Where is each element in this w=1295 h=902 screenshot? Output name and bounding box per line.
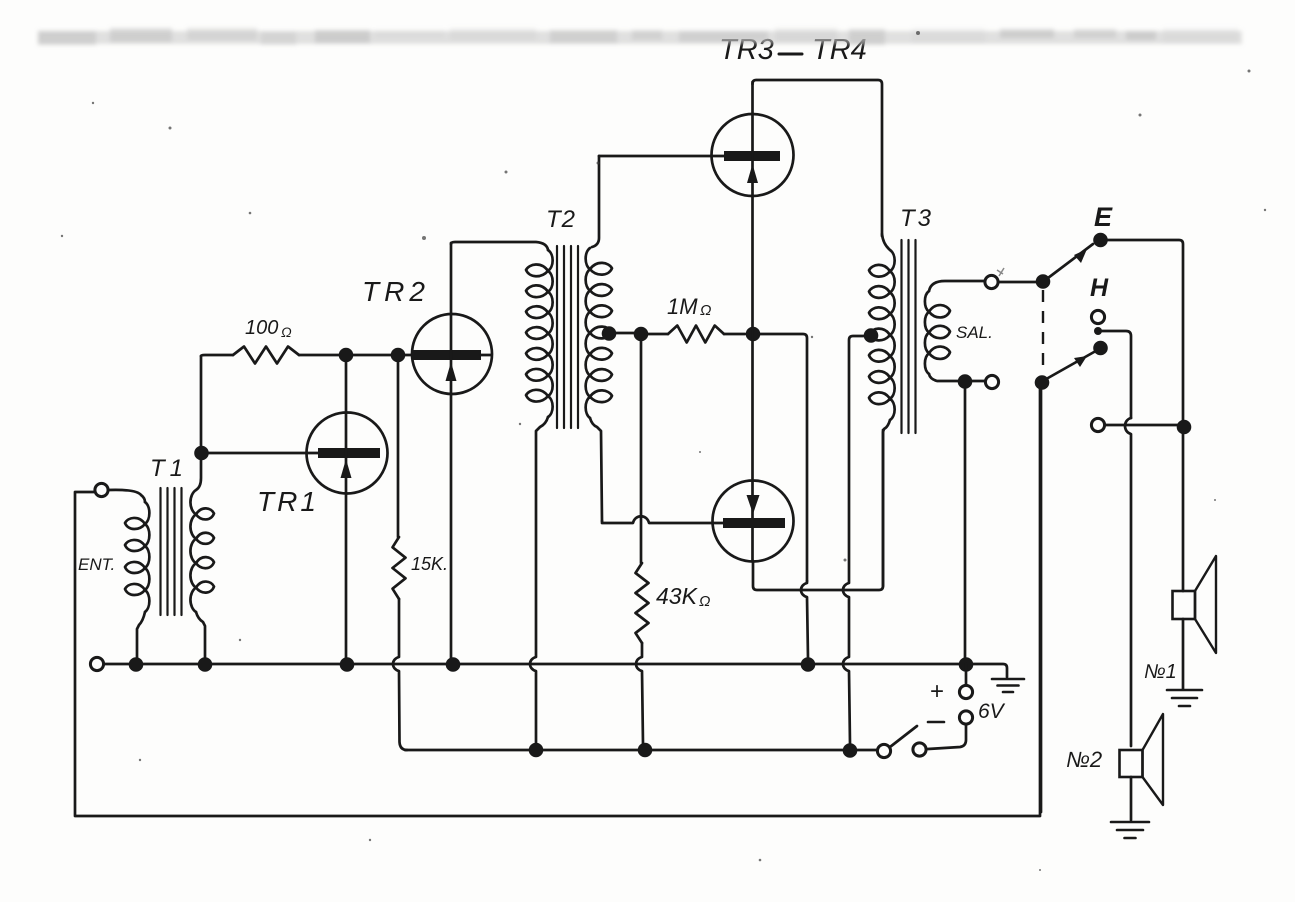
junction H small [1094,327,1102,335]
wire TR1 vertical (collector-emitter) [345,361,348,658]
transistor TR2 base bar [412,350,481,360]
terminal SAL top [985,275,998,288]
wire 15k upper lead [397,361,400,537]
wire 43k lower lead to bus2 [636,643,647,750]
wire 100ohm right lead to TR2 base [299,354,412,357]
speaker No2 cone [1143,714,1164,805]
terminal input top [95,483,108,496]
wire battery negative bus [405,749,877,752]
transformer T2 primary winding [526,250,553,417]
wire speaker1 to ground [1182,619,1185,689]
wire T1 secondary bottom lead [196,612,205,658]
wire speaker1 feed [1182,433,1185,591]
ground speaker2 [1111,822,1149,838]
transistor TR4 emitter arrow [747,495,760,514]
svg-text:Ω: Ω [699,593,710,610]
wire T2 secondary bottom lead [590,418,602,521]
wire T2 center tap [610,332,641,335]
wire TR4 bottom to T3 primary bottom [753,430,883,590]
resistor 43k [636,563,649,643]
wire right drop over y590 to bus [801,581,808,658]
ground speaker1 [1167,690,1202,706]
speaker No2 box [1120,750,1143,777]
transformer T3 core [902,240,916,433]
wire TR2 vertical [450,243,453,658]
svg-text:TR2: TR2 [362,276,430,307]
wire speaker2 to ground [1130,777,1133,820]
wire T1 primary bottom lead [137,612,145,658]
terminal battery minus [959,711,972,724]
wire T3 tap drop [843,336,869,744]
junction SAL bottom [958,374,973,389]
label minus [928,721,944,724]
transistor TR2 emitter arrow [446,362,457,381]
svg-text:T2: T2 [546,206,576,233]
transformer T1 core [161,488,182,615]
junction TR2 to bus [446,657,461,672]
speaker No1 cone [1195,556,1216,653]
transistor TR3 base bar [724,151,780,161]
svg-text:ENT.: ENT. [78,555,115,574]
wire 15k lower lead to bus2 [393,599,407,750]
svg-text:№2: №2 [1066,747,1102,772]
wire TR1 base lead [208,452,318,455]
wire T3 secondary top lead [929,281,984,291]
switch E contact [1093,233,1108,248]
svg-text:100: 100 [245,317,278,339]
svg-text:T1: T1 [150,455,188,482]
wire H pole down frame [1040,389,1043,812]
transistor TR3 emitter arrow [747,164,758,183]
terminal SAL bottom [985,375,998,388]
switch H lever [1048,352,1094,378]
switch E lever [1048,244,1093,278]
wire TR2 base stub [481,354,491,357]
junction right drop to bus [801,657,816,672]
transformer T2 secondary winding [586,248,612,418]
svg-text:№1: №1 [1144,661,1177,683]
wire SAL top to E pole [998,281,1036,284]
transistor TR1 body [307,413,388,494]
junction 43k top node [634,327,649,342]
junction speaker1 line [1177,420,1192,435]
svg-text:E: E [1094,202,1113,232]
svg-text:43K: 43K [656,583,699,609]
junction T1 primary to bus [129,657,144,672]
svg-text:15K.: 15K. [411,554,448,574]
transformer T3 primary winding [869,250,895,420]
terminal battery switch left [877,744,890,757]
svg-text:Ω: Ω [281,324,292,340]
transistor TR3 body [712,114,794,196]
resistor 15k [393,537,406,599]
transformer T3 secondary winding [925,291,950,374]
wire 1M right lead [724,333,745,336]
junction 43k to bus2 [638,743,653,758]
wire TR3 vertical through [751,82,754,561]
wire 100ohm left lead [201,355,233,356]
junction TR1 base node [194,446,209,461]
junction E pole [1036,274,1051,289]
wire speaker common link [1105,424,1178,427]
wire feedback frame left-bottom-right [75,389,1040,816]
wire T1 primary top lead [108,490,145,502]
terminal speaker common [1091,418,1104,431]
svg-text:+: + [930,678,944,705]
junction push-pull emitter node [746,327,761,342]
terminal H top [1091,310,1104,323]
svg-text:H: H [1090,274,1109,302]
svg-text:6V: 6V [978,700,1006,723]
junction TR1 collector node [339,348,354,363]
transistor TR1 base bar [318,448,380,458]
junction T3 tap to bus2 [843,743,858,758]
junction T2 tap [602,326,617,341]
wire E to speaker line [1107,240,1183,421]
wire T3 primary bottom lead [883,420,890,586]
speaker No1 box [1173,591,1196,619]
wire SAL bottom drop to plus node [964,388,967,658]
svg-text:T3: T3 [900,205,934,232]
wire T2 primary bottom lead [530,417,548,744]
terminal input bottom [90,657,103,670]
wire T1 secondary top lead / node to 100ohm [196,356,201,490]
wire plus terminal [965,664,968,685]
svg-text:1M: 1M [667,294,698,319]
terminal battery switch right [913,743,926,756]
transformer T1 primary winding [125,502,149,612]
wire TR3 base lead [599,155,724,158]
wire TR4 base lead [602,516,723,523]
transformer T1 secondary winding [190,490,214,612]
dashed switch link [1042,290,1044,374]
switch H contact [1093,341,1108,356]
scan mark [997,268,1004,276]
transistor TR4 body [713,481,794,562]
junction 15k top node [391,348,406,363]
ground battery [992,679,1024,692]
junction T2 primary to bus2 [529,743,544,758]
wire TR3 base vertical [592,156,599,247]
svg-text:TR1: TR1 [257,486,319,517]
wire TR3 top [753,80,883,236]
transformer T2 core [557,246,578,428]
wire 1M left lead [646,333,668,336]
junction T1 secondary to bus [198,657,213,672]
switch battery lever [890,726,917,747]
wire H line hop over link [1125,418,1131,746]
wire common bus [104,664,1007,677]
transistor TR1 emitter arrow [341,459,352,478]
wire T3 primary top lead [882,234,890,250]
junction T3 center tap [864,328,879,343]
svg-text:SAL.: SAL. [956,323,993,342]
wire H to speaker2 line [1101,331,1131,418]
resistor 1M [668,326,724,343]
wire TR2 collector to T2 primary top [451,242,548,250]
wire 43k upper lead [640,340,643,563]
svg-text:Ω: Ω [700,302,711,319]
resistor 100ohm [233,347,299,364]
transistor TR4 base bar [723,518,785,528]
wire minus to switch [928,724,966,749]
junction battery plus node [959,657,974,672]
transistor TR2 body [412,314,492,394]
terminal battery plus [959,685,972,698]
junction TR1 to bus [340,657,355,672]
junction H pole [1035,375,1050,390]
wire T3 secondary bottom lead [929,374,985,381]
scan noise band [38,28,1242,45]
wire 1M node to right drop [759,334,807,581]
